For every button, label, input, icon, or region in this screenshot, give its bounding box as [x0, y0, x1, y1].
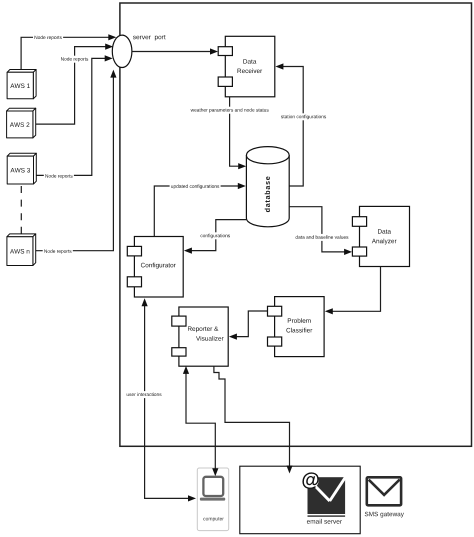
- wire Problem Classifier to Reporter: [237, 311, 268, 337]
- wire AWS2 to server port: [33, 47, 106, 125]
- wire Data Analyzer to Problem Classifier: [332, 267, 380, 312]
- label server port: [133, 35, 166, 41]
- label configurations: [199, 232, 231, 239]
- wire AWSn to server port: [33, 77, 114, 250]
- node AWS 2: [7, 108, 36, 138]
- component Reporter & Visualizer: [172, 307, 228, 366]
- label weather parameters and node status: [189, 107, 270, 114]
- label Node reports (beside AWS3): [44, 173, 74, 180]
- wire Configurator to database (updated configurations): [154, 186, 238, 237]
- component Problem Classifier: [268, 297, 325, 357]
- label data and baseline values: [294, 234, 350, 241]
- label email server: [307, 519, 342, 524]
- node server port (ellipse): [112, 35, 132, 67]
- node SMS gateway icon: [367, 477, 401, 505]
- component Configurator: [127, 237, 183, 298]
- node email server (container box): [240, 466, 360, 534]
- label Node reports (AWS1 wire): [33, 34, 63, 41]
- node computer (container): [197, 468, 228, 531]
- label user interactions: [125, 391, 163, 398]
- label computer: [203, 517, 224, 521]
- wire Reporter to computer (bidirectional): [186, 373, 215, 469]
- label SMS gateway: [365, 512, 404, 518]
- label Node reports (top, AWS3 wire): [59, 56, 89, 63]
- icon laptop: [200, 477, 225, 501]
- wire database to Data Analyzer (data and baseline values): [289, 207, 345, 252]
- wire server port to Data Receiver: [132, 51, 211, 53]
- label database (rotated): [265, 177, 270, 213]
- node AWS 1: [7, 70, 36, 99]
- database cylinder: [246, 147, 289, 227]
- label station configurations: [280, 113, 328, 120]
- dashed wire AWS3 to AWSn: [20, 186, 22, 237]
- wire Configurator to computer (user interactions): [145, 305, 189, 498]
- label updated configurations: [170, 183, 221, 190]
- system boundary rectangle: [120, 3, 472, 446]
- label Node reports (beside AWSn): [43, 248, 73, 255]
- wire Reporter to email server box: [214, 366, 290, 466]
- component Data Receiver: [218, 36, 275, 97]
- component Data Analyzer: [352, 206, 409, 266]
- icon email envelope: [303, 473, 349, 517]
- wire database to Data Receiver (station configurations): [283, 67, 303, 187]
- node AWS n: [7, 234, 36, 266]
- wire database to Configurator (configurations): [192, 220, 247, 251]
- icon @ sign: [302, 472, 319, 489]
- node AWS 3: [7, 153, 36, 184]
- wire AWS1 to server port: [21, 37, 109, 69]
- wire AWS3 to server port: [34, 58, 106, 175]
- wire Data Receiver to database (weather parameters and node status): [230, 97, 239, 166]
